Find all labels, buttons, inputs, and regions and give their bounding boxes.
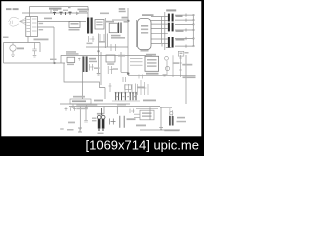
text below IC box [146,73,159,75]
wire links into tile I [134,114,140,117]
text label top-left [6,8,12,10]
junction dot x128 y21 [127,20,129,22]
text label x118 top [118,55,125,57]
small box x178 [178,51,184,56]
wire vertical x105 [104,18,106,48]
border top [0,0,204,1]
transformer T2 windings mid [82,56,87,72]
text label top-center-left [49,8,62,10]
CRT socket box [26,17,38,37]
electrolytic capacitor row [116,94,136,100]
ground at x161 [159,128,163,131]
ground x98 [97,74,101,75]
text under resistor cluster [143,100,156,102]
capacitor C2 with arrow [32,43,36,58]
wire vertical x61 [60,55,62,63]
text label x130 rows [130,58,143,65]
wire vertical bottom right x161 [160,107,162,127]
wires above cap row [109,83,136,92]
wire vertical x136.5 [136,20,138,47]
border left [0,0,1,156]
wire vertical x164.6 [164,12,166,50]
text label right of cap row [137,87,145,89]
text right of bottom winding [177,117,185,119]
wire horizontal under H section [86,46,128,48]
text bottom right [164,129,179,131]
CRT gun fan [20,18,26,24]
wire winding to degauss [82,72,84,99]
text above posistor [97,113,104,115]
wire vertical x121 [121,52,128,72]
wire vertical x98 [98,34,100,74]
text right of caps mid [94,67,100,69]
text below bottom rail [76,108,88,110]
box bottom right [140,110,154,120]
wire vertical bottom left [79,107,81,131]
vertical regulator box left-mid [67,57,75,62]
box H-out [109,23,117,33]
wire over cap tops [115,91,138,93]
wire flyback left links [151,16,168,18]
wire vertical right of CRT box [39,43,41,53]
CRT socket pins [27,17,37,37]
wire stub [50,10,52,13]
text right mid [183,76,196,78]
wire horizontal y104 [60,103,130,105]
small parts under flyback [162,44,171,48]
text label above y42 [34,39,49,41]
wire mid section vertical [100,52,102,85]
text above wire y21 [44,18,52,20]
CRT neck envelope [9,17,19,26]
wire left loop top [4,42,41,44]
junction dot center [127,73,129,75]
bottom left component cluster [65,107,77,111]
wire vertical mid [38,27,55,63]
capacitor pair below center [123,77,126,82]
text left edge [3,37,9,39]
wire under cap row [112,100,140,102]
resistor cluster left-bottom of IC [138,75,149,96]
text label y35 rows [111,35,121,37]
transistor Q1 circle left [10,43,16,57]
wire vertical from CRT area [28,7,30,43]
text label right of Q1 [17,48,24,50]
component at x80 bottom [78,128,82,132]
text label left of flyback [142,14,154,16]
text x123.5 [124,21,129,23]
text right of socket box [39,23,44,24]
parts under degauss box [72,105,89,108]
text inside bottom-right box [142,112,152,114]
wire horizontal second [136,107,172,108]
text label mid transistors [173,62,180,64]
component leads x186 [185,14,187,48]
text above degauss box [73,96,85,98]
wire horizontal bottom right [140,129,180,131]
tiny labels between caps [117,96,119,97]
svg-text:[1069x714] upic.me: [1069x714] upic.me [86,138,199,153]
capacitor cluster on top bus [53,12,72,16]
wire horizontal bottom mid [69,106,160,108]
wire top horizontal bus [22,7,88,18]
text inside IC box [147,59,157,61]
text above junction [50,59,57,60]
text bottom-left labels [67,129,74,131]
wire vertical bottom x119 [116,107,118,115]
text above vdash pair [117,104,126,106]
transformer T1 windings (H-drive) [87,18,93,34]
text bottom right of mid [127,118,136,120]
wire y20 to center [112,19,129,21]
winding bottom right [169,116,174,126]
transistor column right mid [165,55,182,77]
small parts mid [90,64,95,71]
wire right top horizontals [175,14,193,16]
text labels mid section [89,58,96,60]
caps right of posistor [110,119,116,125]
diode D on bus [76,12,80,16]
connector pins right [193,14,195,47]
box sync-separator [69,22,80,28]
text under sync box [69,29,80,31]
degauss label box [70,99,91,104]
ground under transistor [163,75,167,77]
capacitor at x86 [84,120,88,122]
text right of x180 vline [182,64,192,66]
text inside flyback box [141,25,148,27]
posistor windings bottom mid [98,119,105,129]
wire left loop vertical [3,43,5,64]
text below regulator box [67,64,74,66]
text labels right of windings [176,15,183,17]
box mid x106 [106,55,115,62]
IC block bottom-mid-right [145,56,159,71]
circle atop bottom winding [170,112,173,115]
wire long horizontal mid-left [4,62,66,64]
junction node on y63 [54,62,56,64]
caption bar [0,136,204,156]
wire horizontal y55 bus [61,54,152,56]
text left x106 [106,21,114,23]
wire staircase down [64,63,105,99]
text label H-section top [78,9,90,11]
vertical dashes pair bottom [120,116,124,128]
text above IC box [146,54,156,56]
cap left of winding [78,58,80,61]
text label bottom-mid [76,104,97,106]
text under posistor [98,133,104,134]
wire vertical right mid [185,55,187,104]
flyback rounded box [138,19,152,50]
wire long vertical center [127,8,129,75]
small parts mid right [108,66,113,74]
text labels under H section [99,41,105,43]
wire right vertical bus [192,15,194,46]
wire vertical bottom mid [103,107,105,115]
component cluster right of H-out [119,23,121,34]
box H-drive [95,20,104,30]
text right of degauss [94,100,103,102]
wire top feed [30,6,89,8]
wire vertical x150 [149,107,151,120]
text below mid box [107,63,114,65]
wire horizontal CRT to H section [38,20,87,22]
junction dot x98 [98,51,100,53]
text label H area [119,8,126,10]
border right [201,0,204,156]
wire right mid horizontal [128,74,196,76]
wire vertical x107 [106,34,108,48]
flyback windings column [168,14,174,48]
text above rail parts [53,10,58,11]
capacitor pair x130 [130,109,135,114]
circles atop posistor [97,108,105,131]
small parts under H section [89,34,118,51]
text left of posistor [92,118,97,119]
text right of small box [185,52,189,54]
text rows above rail [66,51,76,53]
text label flyback top [166,9,176,11]
wire vertical x86 [85,107,87,121]
